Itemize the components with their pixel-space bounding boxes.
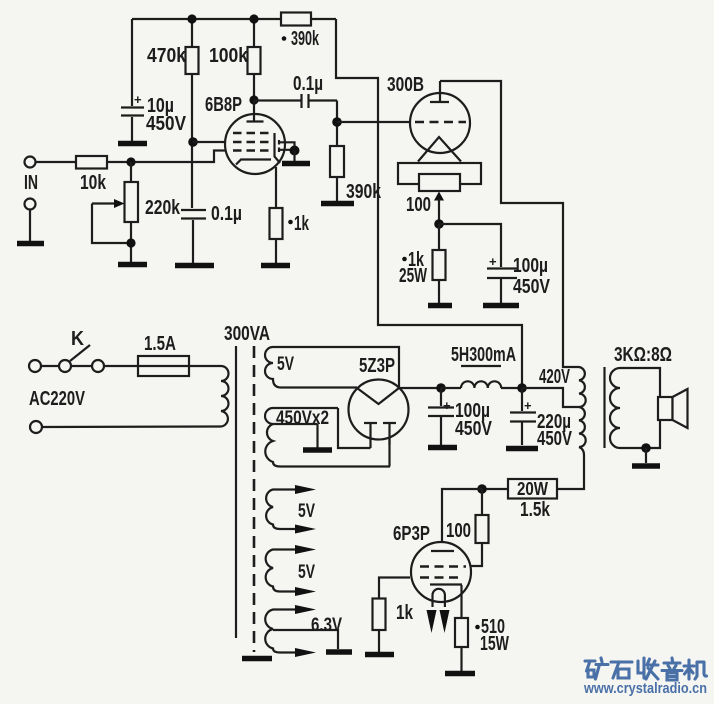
svg-text:300VA: 300VA: [224, 323, 270, 345]
svg-text:420V: 420V: [539, 366, 570, 388]
6B8P grid row1: [233, 132, 271, 135]
arrow 5V2 top: [295, 485, 316, 494]
node dot 470k bottom grid2: [188, 137, 198, 147]
node dot 300B grid: [332, 117, 342, 127]
filament arrow right: [440, 610, 450, 633]
fuse 1.5A: [138, 333, 189, 376]
node dot diode common: [290, 146, 300, 156]
5Z3P plate right: [383, 423, 396, 445]
resistor 390k plate load top: [281, 13, 320, 51]
svg-text:6B8P: 6B8P: [205, 94, 242, 116]
wire to speaker ground: [645, 448, 647, 463]
ground 100u cathode: [483, 303, 519, 309]
svg-text:100: 100: [406, 194, 431, 216]
svg-text:5V: 5V: [298, 501, 315, 522]
ground 220k: [118, 262, 147, 268]
svg-text:+: +: [443, 398, 451, 413]
ground filter2: [506, 446, 538, 452]
transformer primary winding 220V: [221, 366, 229, 427]
winding 5V number2: [266, 490, 315, 530]
capacitor 220u 450V filter2: [510, 388, 572, 450]
5Z3P plate left: [364, 423, 377, 448]
svg-text:+: +: [524, 398, 532, 413]
tube 300B envelope: [410, 93, 470, 153]
6B8P plate and top cap lead: [247, 100, 264, 122]
wire HV top to left diode plate: [338, 408, 371, 448]
6B8P diode plate upper: [279, 140, 295, 147]
ground HV CT: [303, 447, 332, 453]
svg-text:390k: 390k: [346, 181, 382, 203]
svg-text:450V: 450V: [537, 428, 572, 450]
svg-text:450V: 450V: [455, 418, 493, 440]
arrow 5V3 bottom: [295, 587, 316, 596]
svg-text:5V: 5V: [277, 354, 294, 375]
arrow 6.3V top: [295, 605, 316, 614]
wire B+ jog to choke node: [336, 19, 522, 388]
switch K lever: [70, 345, 90, 361]
arrow 5V3 top: [295, 545, 316, 554]
wire 300B plate to output transformer: [440, 81, 579, 367]
arrow 5V2 bottom: [295, 525, 316, 534]
5Z3P filament V: [357, 388, 399, 404]
300B grid dashed: [415, 121, 466, 124]
wire cathode to 510: [460, 585, 462, 618]
ground 510: [445, 671, 475, 677]
switch K contact 2: [92, 360, 104, 372]
tube 5Z3P envelope: [349, 380, 409, 440]
wire plate node to 6P3P: [442, 489, 482, 551]
svg-text:450Vx2: 450Vx2: [276, 408, 329, 429]
svg-text:0.1µ: 0.1µ: [211, 203, 242, 225]
6P3P grid dashed: [420, 576, 461, 579]
capacitor C1 10u 450V filter: [121, 19, 187, 141]
svg-text:1.5A: 1.5A: [144, 333, 176, 355]
potentiometer 100 hum balance: [419, 174, 460, 191]
resistor 100 screen 6P3P: [446, 489, 489, 566]
svg-text:5V: 5V: [298, 562, 315, 583]
capacitor 0.1u coupling: [254, 73, 337, 108]
resistor 1k 25W cathode: [399, 224, 446, 303]
ground 1k 25W: [428, 303, 452, 309]
resistor 100k: [209, 19, 261, 100]
6B8P internal connector g1 to cathode lead: [275, 133, 281, 163]
wire IN to 10k: [36, 161, 77, 163]
terminal AC220V neutral: [30, 421, 42, 433]
svg-text:100µ: 100µ: [513, 255, 548, 277]
resistor 1k cathode 6B8P: [270, 208, 310, 263]
node dot top cap 6B8P: [249, 95, 258, 104]
wire 6B8P cathode down: [275, 167, 277, 208]
capacitor 100u 450V cathode bypass: [487, 254, 551, 303]
node dot input: [126, 157, 135, 166]
wire HV bottom to right diode plate: [388, 425, 390, 467]
node dot choke input: [436, 383, 446, 393]
wire to fuse: [104, 365, 138, 367]
output transformer secondary: [610, 368, 620, 448]
6P3P plate: [431, 550, 454, 552]
svg-text:220k: 220k: [145, 197, 181, 219]
6P3P screen dashed: [420, 565, 466, 568]
wire grid2 to tube: [193, 141, 227, 143]
svg-text:100k: 100k: [209, 45, 249, 67]
wire neutral to primary: [42, 425, 221, 428]
svg-text:10k: 10k: [80, 172, 107, 194]
svg-text:6P3P: 6P3P: [393, 523, 430, 545]
resistor 390k grid leak: [330, 146, 382, 203]
node dot choke output: [517, 383, 527, 393]
svg-text:+: +: [489, 254, 497, 269]
wire to switch: [41, 365, 59, 367]
capacitor 0.1u to ground first stage: [181, 203, 242, 263]
svg-text:0.1µ: 0.1µ: [293, 73, 323, 95]
ground 390k: [321, 201, 354, 207]
wiper arrow 220k: [92, 199, 131, 243]
svg-text:15W: 15W: [480, 633, 509, 655]
wire 420V to primary tap: [522, 388, 579, 407]
capacitor 100u 450V filter1: [428, 388, 493, 445]
wire secondary bottom: [620, 420, 660, 448]
node dot 6P3P plate: [477, 484, 487, 494]
svg-text:1k: 1k: [294, 213, 310, 235]
wire coupling node down: [336, 101, 338, 147]
300B plate: [430, 81, 449, 102]
svg-text:K: K: [71, 328, 84, 350]
6B8P cathode: [236, 160, 271, 165]
ground 1k cathode: [261, 263, 290, 269]
resistor 470k: [147, 19, 199, 208]
svg-text:1k: 1k: [396, 602, 414, 624]
resistor 20W 1.5k: [508, 479, 557, 521]
svg-text:5Z3P: 5Z3P: [359, 355, 395, 377]
svg-text:3KΩ:8Ω: 3KΩ:8Ω: [614, 344, 672, 366]
6B8P diode plate lower: [279, 148, 291, 153]
tube 6P3P envelope: [411, 542, 471, 602]
winding 450Vx2 HV: [265, 408, 390, 467]
wire fuse to primary: [189, 365, 221, 367]
terminal IN top: [25, 157, 36, 168]
node dot rail 100k: [249, 14, 258, 23]
ground diode: [282, 161, 310, 167]
node dot 300B cathode return: [434, 219, 444, 229]
svg-text:25W: 25W: [399, 265, 427, 287]
svg-text:450V: 450V: [513, 276, 551, 298]
svg-text:100: 100: [446, 520, 471, 542]
winding 5V rectifier filament: [265, 347, 399, 388]
wire primary bottom to 20W resistor: [557, 447, 584, 489]
wiper arrow 100 pot: [434, 192, 444, 225]
svg-text:390k: 390k: [291, 28, 320, 50]
terminal IN bottom: [25, 199, 36, 210]
300B filament: [418, 137, 461, 162]
ground speaker: [632, 463, 660, 469]
svg-text:300B: 300B: [387, 74, 424, 96]
transformer core shield dashed: [253, 346, 256, 652]
svg-text:5H300mA: 5H300mA: [451, 344, 516, 366]
wire 6P3P grid left: [379, 578, 410, 599]
transformer core solid: [235, 346, 237, 638]
svg-text:www.crystalradio.cn: www.crystalradio.cn: [583, 681, 707, 697]
winding 5V number3: [266, 550, 316, 592]
wire cathode node to cap: [439, 224, 501, 267]
wire secondary top to speaker: [620, 368, 660, 397]
wire 20W to plate node: [482, 488, 508, 490]
wire between contacts: [71, 365, 92, 367]
ground shield: [242, 656, 272, 662]
svg-text:470k: 470k: [147, 45, 187, 67]
ground filter1: [428, 445, 457, 451]
watermark logo crystalradio: [585, 658, 707, 680]
potentiometer 220k: [125, 162, 181, 262]
switch K contact 1: [59, 360, 71, 372]
6B8P grid row2: [233, 141, 270, 144]
filament supply frame 300B: [398, 163, 481, 184]
ground 0.1u: [175, 263, 214, 269]
arrow 6.3V bottom: [295, 648, 316, 657]
output transformer core: [603, 367, 605, 448]
resistor 510 15W cathode: [455, 616, 509, 671]
wire B+ top rail: [132, 18, 336, 20]
wire HV CT to ground: [316, 424, 318, 448]
svg-text:20W: 20W: [517, 479, 548, 499]
6P3P filament: [433, 589, 445, 607]
node dot speaker ground: [641, 443, 651, 453]
speaker: [658, 389, 688, 428]
choke 5H300mA: [441, 344, 522, 388]
wire rectifier output to choke: [399, 387, 441, 389]
wire 10k to grid step: [107, 151, 227, 163]
ground 6.3V CT: [326, 649, 352, 655]
wire 6.3V CT to ground: [273, 630, 338, 649]
ground IN: [17, 241, 44, 247]
ground 1k grid: [365, 652, 394, 658]
svg-text:AC220V: AC220V: [29, 388, 85, 410]
resistor 10k: [76, 156, 107, 194]
resistor 1k grid 6P3P: [373, 599, 414, 653]
ground under C1: [118, 141, 147, 147]
output transformer primary: [579, 367, 586, 447]
svg-text:450V: 450V: [146, 113, 187, 135]
filament arrow left: [427, 610, 437, 633]
node dot 220k bottom: [126, 238, 135, 247]
terminal AC220V live: [29, 360, 41, 372]
wire IN bottom to ground: [29, 210, 31, 242]
svg-text:1.5k: 1.5k: [520, 499, 551, 521]
svg-text:+: +: [134, 92, 142, 107]
tube 6B8P envelope: [225, 114, 285, 174]
wire grid to 300B: [337, 121, 412, 123]
winding 6.3V: [265, 610, 342, 653]
6P3P cathode: [430, 583, 462, 585]
wire diode to ground: [293, 151, 295, 162]
6B8P grid row3: [233, 149, 270, 152]
svg-text:IN: IN: [24, 172, 38, 194]
node dot rail 470k: [187, 14, 196, 23]
